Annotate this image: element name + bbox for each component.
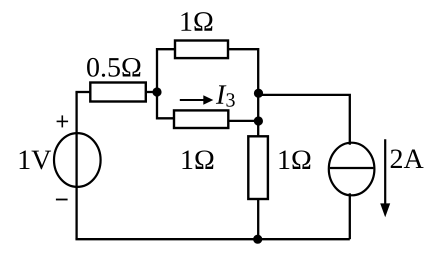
value label 1 ohm (middle resistor)	[182, 150, 213, 169]
wire resistor 0.5 ohm to node A	[146, 91, 157, 93]
wire current source bottom to bottom rail	[349, 193, 351, 239]
current source I1 2A (circle)	[329, 143, 375, 196]
value label 1 ohm (vertical resistor)	[279, 150, 310, 169]
wire bottom rail	[75, 238, 349, 240]
value label 0.5 ohm	[87, 58, 140, 77]
wire source top to resistor 0.5 ohm	[75, 91, 90, 93]
current label I3 (italic I)	[216, 85, 227, 103]
resistor 0.5 ohm	[90, 83, 146, 102]
wire node A up to top resistor	[157, 49, 175, 92]
polarity label minus	[56, 199, 68, 201]
wire node B to current source top	[258, 95, 350, 145]
wire middle resistor to node C	[228, 120, 258, 122]
wire node A down to middle resistor	[157, 92, 174, 118]
value label 2A	[391, 149, 424, 168]
wire left rail through voltage source	[75, 92, 77, 239]
value label 1V	[20, 151, 51, 170]
polarity label plus	[57, 115, 69, 127]
wire node B through node C to vertical resistor	[257, 92, 259, 136]
current label I3 (subscript 3)	[226, 93, 234, 106]
node C junction dot	[254, 116, 263, 125]
current arrow I3	[180, 95, 214, 105]
node D junction dot (bottom)	[253, 235, 262, 244]
value label 1 ohm (top resistor)	[181, 12, 212, 31]
resistor 1 ohm top	[175, 41, 228, 59]
arrow 2A current direction	[380, 139, 390, 217]
node A junction dot	[152, 87, 161, 96]
wire top resistor to node B	[228, 49, 258, 92]
resistor 1 ohm middle	[174, 110, 228, 128]
resistor 1 ohm vertical	[248, 136, 268, 199]
wire vertical resistor to bottom node	[257, 199, 259, 239]
node B junction dot	[254, 89, 263, 98]
voltage source V1 1V	[54, 133, 101, 187]
current source I1 2A (bar)	[330, 167, 374, 169]
